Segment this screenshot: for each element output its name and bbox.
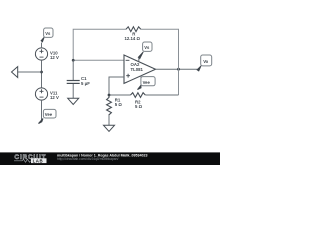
wire bottom node (R1/R2 junction) — [109, 94, 179, 96]
svg-text:12.14 Ω: 12.14 Ω — [125, 36, 141, 41]
resistor R (zigzag, horizontal) — [126, 27, 141, 32]
junction (supply midpoint) — [40, 71, 43, 74]
voltage source V11 — [35, 88, 47, 100]
wire V10 to V11 — [41, 60, 43, 88]
node A junction dot — [72, 59, 75, 62]
ground (below R1) — [104, 125, 115, 131]
wire R1 to ground — [108, 115, 110, 125]
label V11 value — [50, 91, 59, 100]
junction output node — [177, 68, 180, 71]
ground (below C1) — [68, 98, 79, 104]
wire inverting input (node A to op-amp) — [73, 59, 124, 61]
wire non-inverting input branch — [109, 77, 124, 95]
wire op-amp output — [156, 68, 198, 70]
flag Vo (output) — [197, 55, 212, 71]
svg-text:Vee: Vee — [45, 112, 53, 117]
footer watermark bar — [0, 152, 220, 165]
svg-text:12 V: 12 V — [50, 55, 59, 60]
svg-text:Vs: Vs — [45, 31, 51, 36]
svg-text:5 μF: 5 μF — [81, 81, 90, 86]
capacitor C1 — [67, 81, 80, 84]
wire to left ground — [18, 71, 42, 73]
wire top feedback loop from node A up over to output column — [73, 29, 178, 60]
svg-text:TL081: TL081 — [131, 67, 144, 72]
flag Vs (above V10) — [41, 28, 53, 42]
flag Vee (below V11) — [39, 109, 57, 123]
op-amp OA2 — [124, 55, 156, 83]
svg-text:Vee: Vee — [143, 80, 151, 85]
label R2 value — [135, 99, 143, 109]
label V10 value — [50, 51, 59, 60]
wire output column down to bottom feedback — [178, 60, 180, 95]
label C1 value — [81, 76, 90, 86]
svg-text:http;//circuitlab.com/c6v24q8/: http;//circuitlab.com/c6v24q8/multibkapa… — [57, 157, 118, 161]
label R1 value — [115, 98, 123, 108]
flag Vs (op-amp V+ pin) — [138, 42, 152, 62]
junction R1/R2 node — [108, 94, 111, 97]
svg-text:12 V: 12 V — [50, 95, 59, 100]
resistor R1 (zigzag, vertical) — [107, 95, 112, 115]
flag Vee (op-amp V- pin) — [138, 76, 156, 90]
wire C1 branch — [72, 60, 74, 98]
ground (rotated, left) — [12, 67, 18, 78]
svg-text:Vo: Vo — [203, 59, 208, 64]
svg-text:5 Ω: 5 Ω — [115, 102, 123, 107]
voltage source V10 — [35, 48, 47, 60]
wire V10 top pin — [41, 43, 43, 48]
wire V11 bottom pin — [41, 100, 43, 120]
svg-text:Vs: Vs — [144, 45, 150, 50]
svg-text:LAB: LAB — [33, 158, 44, 163]
label R value — [125, 31, 141, 41]
svg-text:5 Ω: 5 Ω — [135, 104, 143, 109]
resistor R2 (zigzag, horizontal) — [131, 93, 146, 98]
